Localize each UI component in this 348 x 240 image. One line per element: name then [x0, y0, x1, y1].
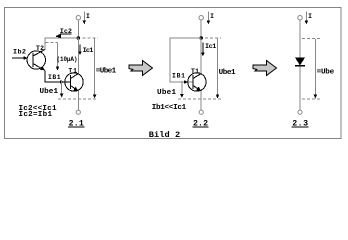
wire emitter to bottom terminal 2.2 [200, 91, 202, 110]
voltage arrow Ube1 (2.1) [60, 80, 64, 98]
svg-text:Ic2: Ic2 [60, 28, 72, 36]
voltage arrow Ube1 bracket (2.2) [216, 39, 220, 99]
svg-text:(10µA): (10µA) [57, 56, 78, 63]
node junction 2.1 [77, 36, 81, 40]
svg-text:Bild 2: Bild 2 [149, 130, 181, 140]
wire top rail to T2 collector [45, 38, 78, 50]
current arrowhead Ic1 (2.1) [78, 45, 82, 56]
svg-text:IB1: IB1 [48, 74, 61, 81]
dashed line bottom node 2.3 [302, 98, 321, 100]
dashed line bottom node 2.2 [178, 98, 221, 100]
current arrow (10uA) [46, 42, 60, 70]
current arrow I (2.1) [83, 12, 87, 25]
svg-text:I: I [86, 13, 90, 20]
block arrow 1 [129, 61, 153, 76]
current arrow I (2.3) [305, 12, 309, 25]
current arrowhead IB1 (2.1) [60, 80, 65, 84]
wire collector branch 2.2 [200, 38, 202, 74]
current arrow Ic2 [55, 33, 71, 38]
block arrow 2 [253, 61, 277, 76]
node top terminal 2.1 [76, 16, 80, 20]
node top terminal 2.3 [298, 16, 302, 20]
node bottom terminal 2.2 [199, 110, 203, 114]
current arrowhead Ic1 (2.2) [201, 43, 205, 57]
wire emitter to bottom terminal 2.1 [77, 91, 79, 110]
wire terminal to junction 2.2 [200, 20, 202, 38]
svg-text:Ic1: Ic1 [83, 47, 94, 55]
dashed line bottom node 2.1 [58, 98, 98, 100]
svg-text:I: I [210, 13, 214, 20]
svg-text:=Ube1: =Ube1 [96, 67, 117, 75]
transistor T1 (2.2) [188, 73, 206, 91]
node bottom terminal 2.3 [298, 110, 302, 114]
wire terminal to diode anode [299, 20, 301, 58]
svg-text:Ib2: Ib2 [13, 48, 26, 56]
voltage arrow =Ube bracket (2.3) [314, 39, 318, 99]
svg-text:Ube1: Ube1 [40, 88, 59, 96]
node top terminal 2.2 [199, 16, 203, 20]
dashed line top node 2.1 [83, 37, 99, 39]
wire T2 emitter to T1 base [45, 71, 71, 83]
wire collector branch 2.1 [77, 38, 79, 74]
svg-text:Ib1<<Ic1: Ib1<<Ic1 [152, 104, 187, 112]
wire base-collector tie 2.2 [170, 38, 201, 82]
svg-text:Ic2=Ib1: Ic2=Ib1 [19, 111, 53, 119]
transistor T1 (2.1) [65, 73, 83, 91]
diode D1 [295, 58, 305, 65]
node bottom terminal 2.1 [76, 110, 80, 114]
border frame [5, 8, 342, 139]
voltage arrow Ube1 (2.2) [180, 81, 184, 98]
wire diode cathode to bottom terminal [299, 67, 301, 111]
dashed line top node 2.2 [205, 37, 221, 39]
svg-text:Ic1: Ic1 [205, 43, 216, 51]
svg-text:Ube1: Ube1 [157, 89, 176, 97]
svg-text:T1: T1 [68, 68, 77, 75]
svg-text:I: I [308, 13, 312, 20]
wire terminal to junction 2.1 [77, 20, 79, 38]
dashed line top node 2.3 [302, 38, 320, 40]
svg-text:=Ube: =Ube [317, 68, 335, 76]
svg-text:T2: T2 [36, 45, 44, 52]
transistor T2 [27, 50, 45, 71]
node junction 2.2 [199, 36, 203, 40]
current arrowhead IB1 (2.2) [184, 80, 189, 84]
current arrow I (2.2) [207, 12, 211, 25]
svg-text:IB1: IB1 [172, 72, 185, 79]
voltage arrow =Ube1 bracket (2.1) [93, 39, 97, 99]
svg-text:Ube1: Ube1 [219, 69, 236, 77]
wire base input Ib2 [12, 57, 24, 59]
svg-text:T1: T1 [191, 68, 199, 75]
